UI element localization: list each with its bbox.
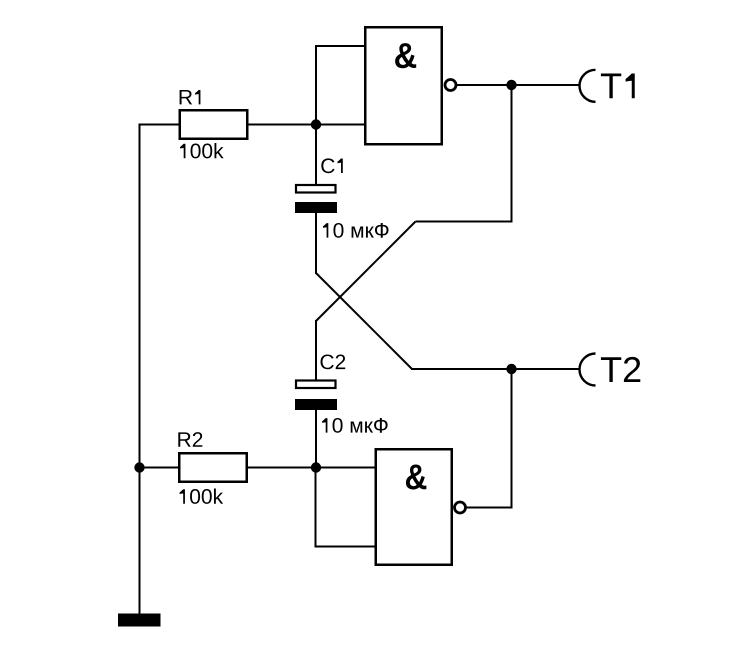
wire: R1 right terminal to node A <box>247 124 316 126</box>
wire: node A up leg to U1 input pin 1 (vertical) <box>315 45 317 125</box>
wire: left supply rail (vertical) <box>139 124 141 616</box>
U1 output inversion bubble <box>445 80 456 91</box>
wire: node D down leg to U2 output (vertical) <box>511 369 513 509</box>
resistor R2 <box>179 453 247 482</box>
value 100k (R1) <box>180 143 224 158</box>
wire: node D to terminal T2 <box>512 368 580 370</box>
wire: cross-coupling diagonal C1 to node D <box>316 273 412 369</box>
label R2 <box>178 432 202 447</box>
junction node A <box>311 119 321 129</box>
wire: cross-coupling horizontal from node B leg <box>416 221 513 223</box>
wire: node A down to C1 top plate <box>315 125 317 185</box>
terminal T2 arc <box>580 354 596 386</box>
label R1 <box>180 90 201 104</box>
wire: node B down leg (vertical) <box>511 85 513 222</box>
junction node C <box>311 462 321 472</box>
wire: R2 right terminal to node C <box>247 467 317 469</box>
wire: jog into U1 input pin 1 (horizontal) <box>315 45 365 47</box>
U2 output inversion bubble <box>455 502 466 513</box>
NAND gate U1 <box>365 27 442 144</box>
junction node D (U2 output) <box>506 364 516 374</box>
label T2 <box>601 357 640 382</box>
wire: U1 bubble to node B <box>457 84 512 86</box>
value 10 мкФ (C1) <box>323 223 389 238</box>
U1 & symbol <box>395 43 416 68</box>
label C2 <box>321 354 346 369</box>
wire: cross-coupling diagonal node B to C2 <box>316 222 416 322</box>
capacitor C2 <box>295 381 337 411</box>
value 10 мкФ (C2) <box>322 418 388 433</box>
capacitor C1 <box>295 185 337 213</box>
wire: node C down leg to U2 input pin 2 (vertical) <box>315 468 317 548</box>
wire: diagonal end to node D (horizontal) <box>411 368 512 370</box>
U2 & symbol <box>406 465 427 490</box>
junction node B (U1 output) <box>506 80 516 90</box>
resistor R1 <box>180 110 248 139</box>
wire: U2 bubble to node D leg <box>466 507 513 509</box>
ground <box>118 614 161 627</box>
wire: node B to terminal T1 <box>512 84 580 86</box>
wire: jog into U2 input pin 2 (horizontal) <box>315 546 376 548</box>
wire: node C to U2 input pin 1 <box>316 467 375 469</box>
label C1 <box>321 158 342 173</box>
junction node E (rail to R2) <box>134 462 144 472</box>
wire: node A to U1 input pin 2 <box>316 124 365 126</box>
label T1 <box>601 74 635 99</box>
terminal T1 arc <box>580 70 596 102</box>
wire: C1 bottom plate down (vertical) <box>315 213 317 274</box>
NAND gate U2 <box>376 449 452 565</box>
wire: C2 bottom plate to node C (vertical) <box>315 410 317 468</box>
value 100k (R2) <box>180 488 224 503</box>
wire: rail node E to R2 left terminal <box>140 467 181 469</box>
wire: rail to R1 left terminal <box>139 124 181 126</box>
wire: diagonal to C2 top plate (vertical) <box>315 320 317 380</box>
